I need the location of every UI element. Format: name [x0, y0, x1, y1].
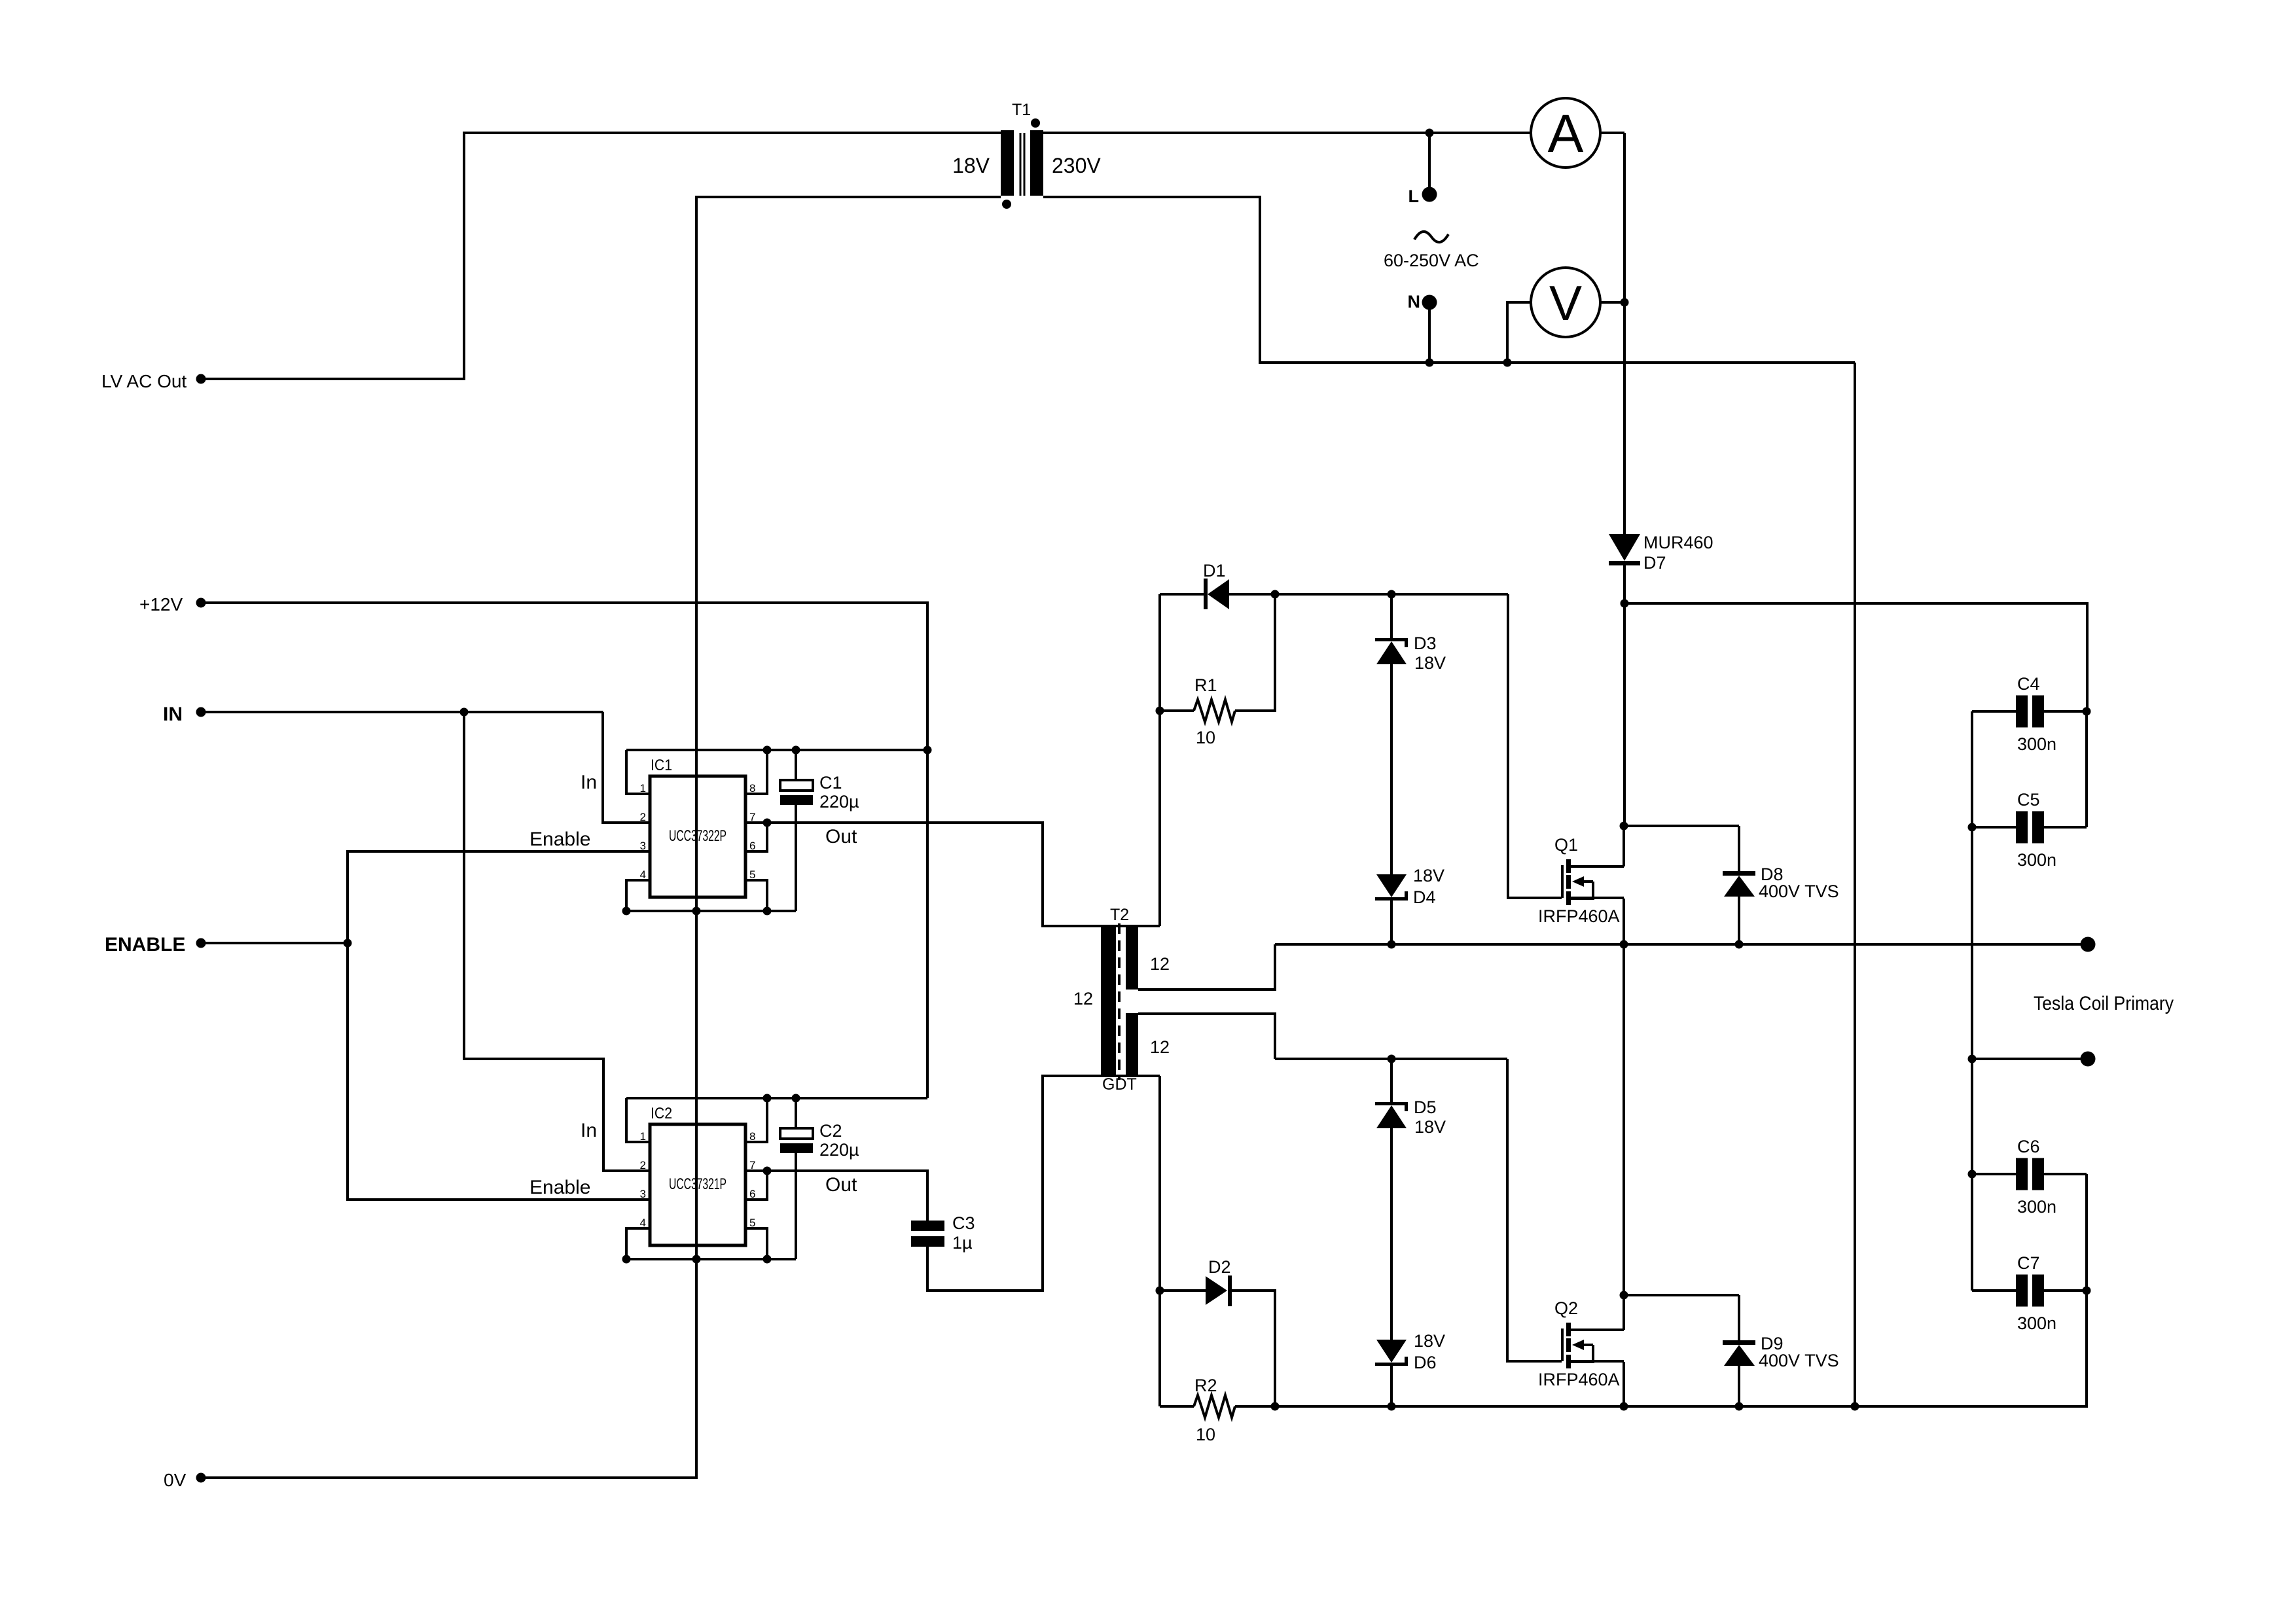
wire V to D7	[1623, 302, 1626, 535]
wire 230V bottom to N rail	[1043, 197, 1855, 363]
junction IC1 pin8 rail	[763, 746, 772, 755]
AC sine symbol	[1414, 232, 1448, 242]
junction IC1 pin5 gnd	[763, 907, 772, 916]
terminal 0V	[196, 1473, 206, 1483]
svg-text:L: L	[1408, 187, 1420, 206]
op-amp IC2 UCC37321P body	[650, 1124, 745, 1245]
junction R1 left	[1156, 707, 1164, 715]
svg-text:C1: C1	[819, 773, 842, 793]
svg-text:300n: 300n	[2017, 734, 2056, 754]
junction D1 row / D3	[1388, 590, 1396, 599]
junction IC2 gnd 0V	[692, 1255, 701, 1264]
svg-text:Q2: Q2	[1554, 1298, 1578, 1318]
terminal L	[1422, 187, 1437, 202]
svg-text:12: 12	[1150, 954, 1170, 974]
wire Q1 row1 to Q2 drain node	[1623, 944, 1625, 1295]
svg-text:5: 5	[749, 1217, 755, 1229]
wire bottom rail left	[1160, 1405, 1194, 1408]
wire ENABLE	[201, 942, 348, 944]
junction Q1 drain node	[1620, 822, 1628, 830]
wire IN	[201, 711, 603, 713]
transistor Q2 IRFP460A	[1562, 1323, 1624, 1368]
wire A to corner	[1600, 132, 1624, 134]
polarity dot T1 primary	[1002, 200, 1011, 209]
wire IC1 pin8	[747, 750, 767, 794]
svg-text:D6: D6	[1414, 1353, 1437, 1372]
svg-text:18V: 18V	[1414, 653, 1446, 673]
wire IC1 pin1	[626, 750, 649, 794]
svg-text:2: 2	[640, 1159, 646, 1171]
junction C2 top	[792, 1094, 800, 1103]
junction ENABLE branch	[344, 939, 352, 948]
wire Q1 drain node to D8	[1624, 825, 1739, 827]
capacitor C4 300n	[2016, 696, 2044, 728]
diode D1	[1204, 579, 1229, 609]
svg-text:1: 1	[640, 782, 646, 794]
wire C2 bottom lead	[795, 1153, 797, 1259]
svg-text:0V: 0V	[164, 1470, 187, 1490]
svg-text:IRFP460A: IRFP460A	[1538, 1370, 1620, 1389]
wire IC2 pin8	[747, 1098, 767, 1142]
resistor R1 10	[1194, 700, 1235, 722]
capacitor C7 300n	[2016, 1275, 2044, 1307]
junction C4 right	[2083, 707, 2091, 716]
svg-text:6: 6	[749, 840, 755, 852]
svg-text:IC1: IC1	[651, 757, 672, 774]
svg-text:300n: 300n	[2017, 1197, 2056, 1217]
svg-text:18V: 18V	[952, 154, 990, 177]
junction Q2 drain node	[1620, 1291, 1628, 1300]
diode D2	[1206, 1275, 1232, 1306]
wire Q1 source to row1	[1623, 899, 1625, 944]
zener diode D3	[1375, 638, 1408, 664]
junction IC1 pin4 gnd	[622, 907, 631, 916]
svg-text:230V: 230V	[1052, 154, 1101, 177]
svg-text:Out: Out	[825, 1174, 857, 1196]
wire row2 gate drive Q2	[1275, 1058, 1507, 1060]
svg-text:C5: C5	[2017, 790, 2040, 810]
wire N rail to bottom rail	[1854, 363, 1856, 1406]
wire IC2 GND rail	[626, 1258, 796, 1260]
svg-text:300n: 300n	[2017, 1313, 2056, 1333]
node LV AC Out wire	[201, 133, 1001, 379]
wire R1 right to D1 row	[1235, 594, 1275, 711]
svg-text:D5: D5	[1414, 1097, 1437, 1117]
svg-text:1: 1	[640, 1130, 646, 1143]
svg-text:4: 4	[640, 1217, 646, 1229]
svg-text:18V: 18V	[1413, 866, 1444, 885]
junction rail / D9	[1735, 1402, 1744, 1411]
junction row1 / D4	[1388, 940, 1396, 949]
svg-text:UCC37321P: UCC37321P	[669, 1175, 726, 1193]
junction C1 top	[792, 746, 800, 755]
wire D7 cathode to C4/C5	[1624, 603, 2087, 711]
junction 230V top / L	[1426, 129, 1434, 137]
zener diode D6	[1375, 1340, 1408, 1366]
svg-text:1µ: 1µ	[952, 1233, 973, 1253]
svg-text:60-250V AC: 60-250V AC	[1384, 251, 1479, 270]
wire T2 sec1 to row1	[1138, 944, 1275, 990]
svg-text:8: 8	[749, 1130, 755, 1143]
svg-text:LV AC Out: LV AC Out	[101, 371, 187, 391]
diode D9 400V TVS	[1723, 1340, 1755, 1366]
node +12V wire	[201, 603, 927, 1098]
wire C2 top lead	[795, 1098, 797, 1128]
terminal +12V	[196, 598, 206, 608]
transformer T2 core (dashed)	[1118, 923, 1121, 1080]
capacitor C2 220u	[780, 1128, 813, 1153]
wire D6 to bottom rail	[1390, 1366, 1393, 1406]
wire IC2 pin7	[747, 1169, 767, 1172]
svg-text:R1: R1	[1194, 675, 1217, 695]
svg-text:2: 2	[640, 811, 646, 823]
junction C7 right	[2083, 1287, 2091, 1295]
svg-text:T1: T1	[1012, 101, 1031, 119]
wire C6 right lead	[2044, 1173, 2087, 1175]
junction IC2 out	[763, 1167, 772, 1175]
wire C4 right lead	[2044, 710, 2087, 713]
junction +12V IC1 rail	[924, 746, 932, 755]
wire T1 18V bottom to 0V rail	[201, 197, 1001, 1478]
svg-text:4: 4	[640, 868, 646, 881]
wire IC2 pin6	[747, 1171, 767, 1200]
wire IC2 pin5	[747, 1228, 767, 1259]
wire ENABLE to IC2 pin3	[348, 943, 649, 1200]
junction D1 / R1 right	[1271, 590, 1280, 599]
wire C4 left lead	[1972, 710, 2016, 713]
wire IC2 VCC rail	[626, 1097, 927, 1099]
svg-text:IN: IN	[163, 704, 183, 725]
svg-text:C3: C3	[952, 1213, 975, 1233]
wire D5 to D6	[1390, 1128, 1393, 1340]
wire C1 bottom lead	[795, 805, 797, 911]
diode D7 MUR460	[1609, 534, 1640, 565]
capacitor C6 300n	[2016, 1158, 2044, 1190]
wire N stub	[1428, 304, 1431, 363]
terminal IN	[196, 707, 206, 717]
svg-text:12: 12	[1150, 1037, 1170, 1057]
svg-text:GDT: GDT	[1102, 1075, 1137, 1094]
junction rail / D6	[1388, 1402, 1396, 1411]
svg-text:10: 10	[1196, 1425, 1215, 1444]
wire IC1 pin5	[747, 880, 767, 911]
svg-text:T2: T2	[1110, 906, 1129, 924]
junction row1 / Q1 source	[1620, 940, 1628, 949]
junction D7 cathode	[1621, 599, 1629, 608]
transistor Q1 IRFP460A	[1562, 859, 1624, 905]
junction rail / D2	[1271, 1402, 1280, 1411]
svg-text:3: 3	[640, 1188, 646, 1200]
wire C1 top lead	[795, 750, 797, 780]
wire D9 top lead	[1738, 1295, 1740, 1341]
capacitor C5 300n	[2016, 811, 2044, 844]
junction IN branch	[460, 708, 469, 717]
wire D9 to bottom rail	[1738, 1366, 1740, 1406]
wire C4-C5 left vertical	[1971, 711, 1973, 1291]
transformer T2 primary winding	[1101, 926, 1116, 1076]
junction C6 left	[1968, 1170, 1977, 1179]
svg-text:D4: D4	[1413, 887, 1436, 907]
wire IC1 pin7	[747, 821, 767, 824]
svg-text:C6: C6	[2017, 1137, 2040, 1156]
svg-text:3: 3	[640, 840, 646, 852]
svg-text:C4: C4	[2017, 674, 2040, 694]
svg-text:18V: 18V	[1414, 1331, 1445, 1351]
wire V left lead	[1507, 302, 1531, 363]
wire T2 sec2 to row2	[1138, 1014, 1275, 1059]
wire bottom rail	[1235, 1291, 2087, 1406]
wire D8 to row1	[1738, 897, 1740, 944]
svg-text:Tesla Coil Primary: Tesla Coil Primary	[2034, 993, 2174, 1014]
wire D2 cathode to bottom rail	[1232, 1291, 1275, 1406]
wire R1 left lead	[1160, 709, 1194, 712]
terminal N	[1422, 295, 1437, 310]
junction IC1 gnd 0V	[692, 907, 701, 916]
wire row2 to D5	[1390, 1059, 1393, 1102]
meter A	[1531, 98, 1600, 168]
svg-text:5: 5	[749, 868, 755, 881]
svg-text:C7: C7	[2017, 1253, 2040, 1273]
svg-text:+12V: +12V	[139, 594, 183, 615]
diode D8 400V TVS	[1723, 871, 1755, 897]
svg-text:D1: D1	[1203, 561, 1226, 580]
junction IC1 out	[763, 819, 772, 827]
wire ENABLE to IC1 pin3	[348, 851, 649, 943]
zener diode D4	[1375, 874, 1408, 901]
wire C6-C7 right vertical	[2085, 1174, 2088, 1291]
svg-text:7: 7	[749, 1159, 755, 1171]
svg-text:12: 12	[1073, 989, 1093, 1008]
wire D1 anode row left	[1160, 593, 1206, 596]
wire D7 to Q1 drain node	[1623, 564, 1626, 826]
wire C5 right lead	[2044, 826, 2087, 829]
junction IC2 pin8 rail	[763, 1094, 772, 1103]
wire Q2 drain entry	[1623, 1295, 1625, 1330]
svg-text:V: V	[1549, 276, 1582, 330]
junction row2 / D5	[1388, 1055, 1396, 1063]
svg-text:D2: D2	[1208, 1257, 1231, 1277]
wire Tesla primary bottom row	[1972, 1058, 2088, 1060]
wire IN to IC2 pin2	[464, 712, 649, 1171]
svg-text:400V TVS: 400V TVS	[1759, 1351, 1839, 1370]
svg-text:400V TVS: 400V TVS	[1759, 882, 1839, 901]
meter V	[1531, 268, 1600, 337]
junction V right	[1621, 298, 1629, 307]
wire IC2 pin1	[626, 1098, 649, 1142]
wire L stub	[1428, 133, 1431, 193]
svg-text:Enable: Enable	[529, 1177, 590, 1198]
zener diode D5	[1375, 1102, 1408, 1128]
wire V right lead	[1600, 301, 1624, 304]
svg-text:UCC37322P: UCC37322P	[669, 827, 726, 845]
transformer T1 windings	[1001, 130, 1043, 196]
wire row1 gate drive Q1 / Tesla primary top	[1275, 943, 2088, 946]
wire D2 anode lead	[1160, 1289, 1207, 1292]
junction rail / Q2 source	[1620, 1402, 1628, 1411]
svg-text:7: 7	[749, 811, 755, 823]
wire D1 row to Q1 gate	[1508, 594, 1562, 898]
wire C3 to T2 primary bottom	[927, 1076, 1160, 1291]
svg-text:220µ: 220µ	[819, 792, 859, 811]
wire D4 to row1	[1390, 901, 1393, 944]
wire IC1 GND rail	[626, 910, 796, 912]
svg-text:IRFP460A: IRFP460A	[1538, 906, 1620, 926]
junction N rail / N	[1426, 359, 1434, 367]
wire Q2 source to bottom rail	[1623, 1362, 1625, 1406]
svg-text:220µ: 220µ	[819, 1140, 859, 1160]
transformer T1 core	[1020, 133, 1026, 196]
junction row1 / D8	[1735, 940, 1744, 949]
junction D2 anode	[1156, 1287, 1164, 1295]
transformer T2 secondary 1 winding	[1126, 927, 1138, 990]
wire IC1 VCC rail	[626, 749, 927, 751]
svg-text:R2: R2	[1194, 1376, 1217, 1395]
wire Q2 drain node to D9	[1624, 1294, 1739, 1296]
wire A/V vertical	[1623, 133, 1626, 302]
wire C4-C5 right vertical	[2085, 711, 2088, 827]
svg-text:D7: D7	[1643, 553, 1666, 573]
junction C5 left	[1968, 823, 1977, 832]
junction rail / right vertical	[1851, 1402, 1859, 1411]
op-amp IC1 UCC37322P body	[650, 776, 745, 897]
junction Tesla bottom / C column	[1968, 1055, 1977, 1063]
svg-text:D3: D3	[1414, 633, 1437, 653]
junction IC2 pin4 gnd	[622, 1255, 631, 1264]
polarity dot T1 secondary	[1031, 118, 1040, 128]
svg-text:N: N	[1408, 292, 1421, 312]
svg-text:In: In	[581, 772, 597, 793]
wire Q1 drain entry	[1623, 826, 1625, 866]
wire D1 row right	[1228, 593, 1508, 596]
terminal Tesla primary top	[2081, 937, 2096, 952]
transformer T2 secondary 2 winding	[1126, 1013, 1138, 1075]
svg-text:MUR460: MUR460	[1643, 533, 1713, 552]
wire IC2 out to C3	[767, 1171, 927, 1223]
wire T2 top to D1 row	[1158, 594, 1161, 926]
svg-text:ENABLE: ENABLE	[105, 934, 185, 955]
svg-text:IC2: IC2	[651, 1105, 672, 1122]
svg-text:Q1: Q1	[1554, 835, 1578, 855]
svg-text:18V: 18V	[1414, 1117, 1446, 1137]
terminal LV AC Out	[196, 374, 206, 384]
svg-text:C2: C2	[819, 1121, 842, 1141]
wire D3 to D4	[1390, 664, 1393, 875]
wire D1 row to D3	[1390, 594, 1393, 638]
wire IC1 pin4	[626, 880, 649, 911]
wire C5 left lead	[1972, 826, 2016, 829]
wire 230V top	[1043, 132, 1531, 134]
terminal Tesla primary bottom	[2081, 1052, 2096, 1067]
wire D8 top lead	[1738, 826, 1740, 872]
wire IC1 pin6	[747, 823, 767, 851]
terminal ENABLE	[196, 938, 206, 948]
wire IC1 out to T2 primary top	[767, 823, 1160, 926]
svg-text:6: 6	[749, 1188, 755, 1200]
svg-text:10: 10	[1196, 728, 1215, 747]
svg-text:8: 8	[749, 782, 755, 794]
wire IC2 pin4	[626, 1228, 649, 1259]
svg-text:Enable: Enable	[529, 829, 590, 850]
wire C7 left lead	[1972, 1289, 2016, 1292]
wire row2 to Q2 gate	[1507, 1059, 1562, 1361]
wire C6 left lead	[1972, 1173, 2016, 1175]
wire T2 bottom to D2 row	[1158, 1076, 1161, 1406]
svg-text:300n: 300n	[2017, 850, 2056, 870]
capacitor C3 1u	[911, 1221, 944, 1247]
junction IC2 pin5 gnd	[763, 1255, 772, 1264]
capacitor C1 220u	[780, 780, 813, 805]
svg-text:A: A	[1548, 104, 1584, 164]
wire IN to IC1 pin2	[603, 712, 649, 823]
svg-text:Out: Out	[825, 826, 857, 847]
resistor R2 10	[1194, 1395, 1235, 1418]
junction N rail / V	[1503, 359, 1512, 367]
wire C7 right lead	[2044, 1289, 2087, 1292]
svg-text:In: In	[581, 1120, 597, 1141]
